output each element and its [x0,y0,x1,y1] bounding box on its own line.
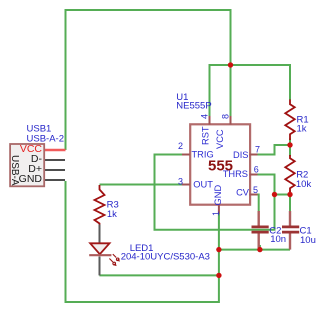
resistor R1 [285,100,294,141]
wire VCC top loop [66,10,231,150]
USB1 pin D- [45,159,66,161]
svg-text:1: 1 [211,211,221,216]
wire THRS down [257,175,275,195]
R3-LED gray lead [99,225,101,244]
wire cap bottoms [219,249,290,251]
wire DIS to R1/R2 junction [257,145,291,155]
svg-text:USB-A-2: USB-A-2 [27,134,64,145]
LED1 diode triangle [90,243,109,254]
svg-text:204-10UYC/S530-A3: 204-10UYC/S530-A3 [121,251,210,262]
U1 pin stub 5 [250,194,258,196]
wire LED cathode to GND [99,274,218,276]
svg-text:7: 7 [255,145,260,155]
LED1 light arrow 2 [109,259,116,267]
wire CV to C2 [254,195,259,213]
LED1 cathode gray lead [99,257,101,276]
svg-text:GND: GND [19,173,43,185]
svg-text:TRIG: TRIG [192,150,214,160]
svg-text:10n: 10n [270,234,286,245]
junction R1-R2-DIS [287,142,292,147]
USB1 pin D+ [45,169,66,171]
svg-text:1k: 1k [107,209,117,220]
svg-text:3: 3 [178,177,183,187]
connector USB1 body [10,144,44,186]
wire R2 bottom to junction [289,191,291,195]
U1 pin stub 7 [250,154,258,156]
U1 pin stub 1 [218,205,220,214]
wire OUT to R3 [100,184,183,186]
U1 pin stub 3 [182,184,190,186]
wire TRIG to THRS net [155,155,275,230]
svg-text:10u: 10u [300,235,316,246]
svg-text:RST: RST [201,126,211,145]
svg-text:1k: 1k [297,123,307,134]
junction C2-GND [257,247,262,252]
resistor R2 [285,155,294,192]
wire R2 top lead [289,145,291,156]
junction THRS-TRIG [272,192,277,197]
LED1 light arrow 1 [113,254,120,262]
wire C2 bottom to junction [259,245,261,250]
junction GND-caps [216,247,221,252]
USB1 pin GND [45,179,66,181]
svg-text:6: 6 [254,165,259,175]
junction LED-GND [216,273,221,278]
wire GND net from pin1 [66,181,219,302]
op-amp U1 555 chip body [190,124,250,204]
wire VCC horizontal to R1 [210,65,291,116]
wire VCC red from USB [45,149,66,151]
svg-text:GND: GND [213,185,223,206]
U1 pin stub 8 [230,116,232,125]
LED1 cathode bar [89,254,111,256]
svg-text:10k: 10k [296,179,312,190]
svg-text:CV: CV [236,188,250,198]
wire R1 bottom to junction [289,139,291,146]
svg-text:NE555P: NE555P [176,101,211,112]
junction VCC-R1 [228,62,233,67]
svg-text:5: 5 [253,185,258,195]
svg-text:OUT: OUT [193,180,213,190]
U1 pin stub 6 [250,174,258,176]
capacitor C1 plates [282,211,299,250]
wire THRS junction to R2/C1 junction [275,194,291,196]
U1 pin stub 2 [182,154,190,156]
svg-text:DIS: DIS [233,150,249,160]
svg-text:4: 4 [199,114,209,119]
U1 pin stub 4 [209,116,211,125]
svg-text:USB-A: USB-A [9,155,20,186]
capacitor C2 plates [252,211,269,248]
junction R2-C1 [287,192,292,197]
wire C1 top lead [289,195,291,213]
svg-text:8: 8 [220,114,230,119]
svg-text:2: 2 [178,141,183,151]
resistor R3 [95,185,105,225]
svg-text:VCC: VCC [215,129,225,149]
svg-text:THRS: THRS [223,169,248,179]
